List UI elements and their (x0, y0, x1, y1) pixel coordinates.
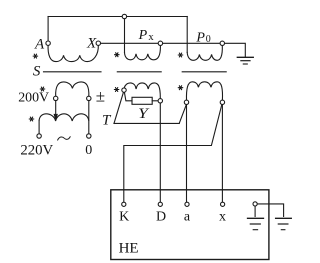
svg-text:a: a (184, 209, 191, 224)
svg-text:220V: 220V (20, 142, 53, 158)
polarity mark 220V winding (29, 117, 34, 121)
wire trapezoid left diagonal (114, 92, 124, 123)
svg-text:0: 0 (85, 143, 92, 158)
svg-text:P: P (138, 28, 148, 43)
svg-text:P: P (195, 30, 205, 45)
terminal P0 right (220, 41, 224, 45)
svg-text:HE: HE (119, 240, 139, 256)
wire diagonal to P0 secondary left (179, 104, 186, 123)
wire Y left link (124, 92, 132, 101)
terminal P0 secondary left (184, 100, 188, 104)
terminal Px right (158, 41, 162, 45)
svg-text:x: x (148, 32, 154, 43)
terminal ground HE (253, 202, 257, 206)
svg-text:T: T (102, 112, 112, 128)
terminal D (158, 202, 162, 206)
wire wiper arrow shaft (55, 101, 57, 115)
terminal Y right (158, 99, 162, 103)
svg-text:X: X (86, 36, 97, 52)
ground inside HE (254, 206, 256, 217)
polarity mark Px secondary (114, 88, 119, 92)
core line Px (117, 71, 161, 73)
svg-text:K: K (119, 209, 129, 224)
node junction top (122, 14, 126, 18)
terminal S primary right (87, 96, 91, 100)
wire top bus (48, 16, 187, 18)
polarity mark 200V winding (40, 87, 45, 91)
svg-text:±: ± (96, 87, 105, 106)
winding T autotransformer (39, 114, 89, 121)
terminal A (46, 41, 50, 45)
wire to outer ground (257, 204, 283, 217)
wire D drop (159, 103, 161, 202)
wire 0 riser (88, 101, 90, 134)
wire junction to Px primary (124, 17, 126, 53)
polarity mark Px primary (115, 53, 120, 57)
wire trapezoid bottom (114, 122, 179, 124)
winding Px secondary (124, 83, 160, 99)
svg-text:Y: Y (138, 104, 150, 121)
wire X to ground corner (98, 43, 245, 57)
wire K run from P0 secondary right (124, 104, 222, 202)
winding A-X (transformer S secondary) (48, 45, 98, 62)
wire 220V drop (38, 120, 40, 134)
core line P0 (182, 71, 226, 73)
polarity mark A winding (33, 54, 38, 58)
core line S (44, 71, 102, 73)
winding S primary 200V (56, 82, 89, 96)
wire A riser (47, 17, 49, 42)
burden Y box (132, 97, 152, 104)
wire x drop (221, 105, 223, 203)
terminal Px secondary left (122, 88, 126, 92)
svg-text:200V: 200V (18, 91, 49, 106)
winding P0 primary (187, 45, 222, 60)
svg-text:0: 0 (206, 34, 211, 45)
terminal x (221, 202, 225, 206)
wiper arrowhead (54, 114, 58, 121)
polarity mark P0 secondary (178, 86, 183, 90)
polarity mark P0 primary (178, 53, 183, 57)
winding Px primary (125, 45, 161, 59)
HE box (111, 190, 269, 260)
ground top-right bars (237, 56, 253, 58)
wire Y right link (152, 100, 158, 102)
svg-text:A: A (34, 37, 45, 53)
terminal a (185, 202, 189, 206)
terminal 220V (37, 134, 41, 138)
svg-text:x: x (219, 209, 226, 224)
ground outside HE bars (276, 217, 292, 219)
svg-text:S: S (33, 64, 41, 80)
terminal K (122, 202, 126, 206)
terminal 200V (54, 96, 58, 100)
winding P0 secondary (186, 82, 222, 101)
svg-text:D: D (156, 209, 166, 224)
label tilde AC (58, 137, 71, 140)
wire top bus down to P0 primary (186, 17, 188, 53)
terminal X (96, 41, 100, 45)
terminal 0 (87, 134, 91, 138)
wire a drop (186, 105, 188, 203)
terminal P0 secondary right (220, 100, 224, 104)
